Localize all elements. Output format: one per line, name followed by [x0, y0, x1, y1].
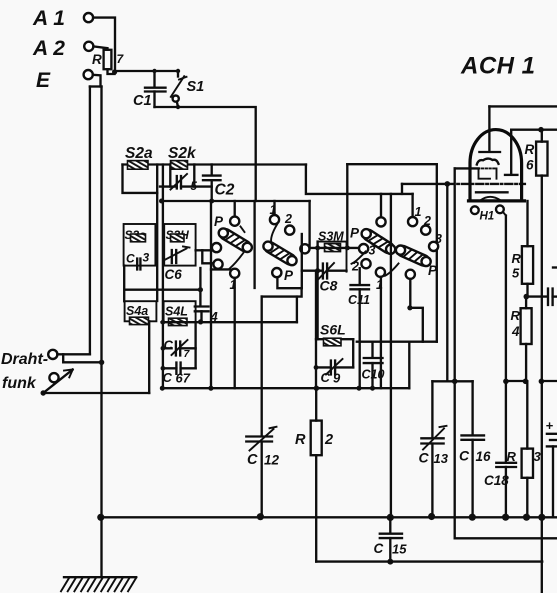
svg-text:2: 2 [284, 212, 292, 226]
svg-text:5: 5 [191, 181, 198, 193]
svg-text:R: R [507, 449, 517, 464]
svg-text:C1: C1 [133, 93, 152, 109]
svg-text:C: C [419, 450, 430, 466]
svg-text:C11: C11 [348, 293, 370, 307]
svg-text:3: 3 [143, 251, 150, 265]
svg-text:H1: H1 [480, 211, 495, 223]
svg-text:P: P [428, 263, 438, 278]
svg-text:Draht-: Draht- [1, 351, 48, 368]
svg-text:ACH 1: ACH 1 [460, 53, 536, 80]
svg-text:funk: funk [2, 375, 37, 392]
svg-text:13: 13 [434, 451, 449, 466]
svg-text:C: C [126, 252, 135, 266]
svg-text:15: 15 [392, 542, 407, 557]
svg-text:9: 9 [333, 371, 341, 386]
svg-text:C8: C8 [320, 278, 338, 294]
svg-text:16: 16 [476, 449, 492, 464]
svg-text:C: C [374, 541, 384, 556]
svg-text:S2k: S2k [168, 145, 197, 162]
svg-text:R: R [512, 251, 522, 266]
svg-text:+: + [546, 418, 554, 433]
svg-text:S1: S1 [187, 79, 205, 95]
svg-text:S4L: S4L [165, 305, 188, 319]
svg-text:5: 5 [512, 266, 520, 281]
svg-text:S2a: S2a [125, 145, 153, 162]
svg-text:P: P [350, 226, 360, 241]
svg-text:2: 2 [324, 432, 333, 448]
svg-text:3: 3 [534, 449, 542, 464]
svg-text:A 1: A 1 [32, 7, 65, 30]
svg-text:S4a: S4a [126, 304, 148, 318]
svg-text:C: C [164, 338, 174, 353]
svg-text:A 2: A 2 [32, 37, 65, 60]
svg-text:3: 3 [369, 244, 376, 258]
svg-text:S6L: S6L [320, 322, 346, 338]
svg-text:R: R [295, 432, 306, 448]
svg-text:P: P [284, 268, 294, 283]
svg-text:C10: C10 [362, 368, 385, 382]
svg-text:67: 67 [176, 371, 191, 386]
svg-text:C2: C2 [215, 182, 235, 199]
svg-text:C: C [163, 370, 173, 385]
svg-text:R: R [525, 142, 535, 157]
svg-text:C18: C18 [484, 473, 509, 488]
svg-text:C: C [247, 452, 258, 468]
svg-text:R: R [92, 52, 102, 67]
svg-text:C: C [459, 448, 470, 464]
svg-text:E: E [36, 69, 51, 92]
svg-text:C: C [321, 370, 331, 385]
svg-text:4: 4 [511, 324, 520, 339]
svg-text:6: 6 [526, 158, 534, 173]
svg-text:12: 12 [264, 453, 280, 468]
svg-text:R: R [511, 308, 521, 323]
svg-text:C6: C6 [165, 267, 183, 282]
svg-text:P: P [214, 214, 224, 229]
